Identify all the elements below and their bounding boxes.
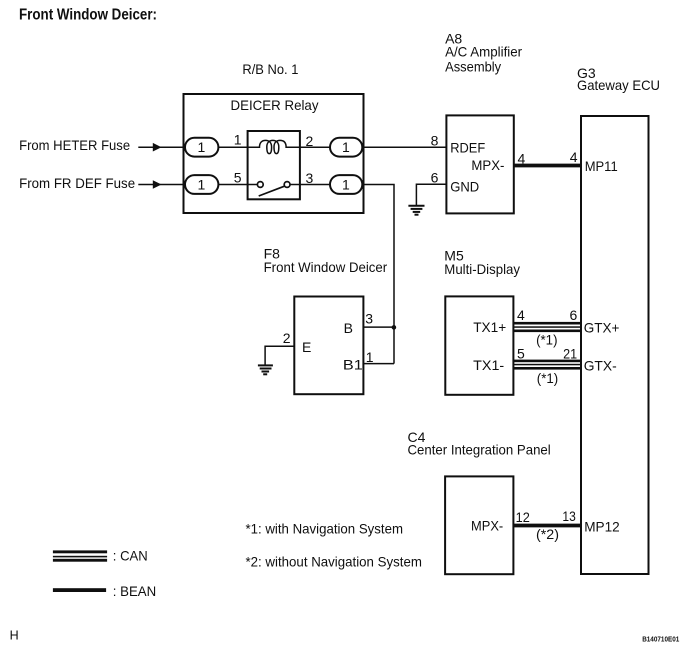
M5 multi-display box [445, 296, 513, 394]
wire relay pin3 to F8 (down) [362, 185, 394, 364]
arrow from HETER fuse [138, 146, 183, 148]
svg-text:GTX+: GTX+ [584, 320, 620, 336]
wire GND to ground [416, 184, 446, 205]
svg-text:Front Window Deicer:: Front Window Deicer: [19, 7, 157, 24]
svg-text:From FR DEF Fuse: From FR DEF Fuse [19, 175, 135, 191]
svg-text:3: 3 [306, 170, 314, 186]
svg-text:Front Window Deicer: Front Window Deicer [264, 259, 388, 275]
wire E to ground [265, 346, 294, 365]
svg-text:B140710E01: B140710E01 [642, 634, 679, 643]
legend BEAN line sample [53, 588, 106, 592]
svg-text:5: 5 [517, 346, 525, 362]
wire coil to oval [300, 146, 330, 148]
svg-text:Assembly: Assembly [445, 59, 501, 75]
arrow from FR DEF fuse [138, 184, 183, 186]
ground symbol (A8 GND) [408, 206, 424, 215]
svg-text:DEICER Relay: DEICER Relay [231, 97, 319, 113]
svg-text:H: H [10, 628, 19, 642]
svg-text:*1: with Navigation System: *1: with Navigation System [246, 521, 404, 537]
svg-text:*2: without Navigation System: *2: without Navigation System [246, 554, 422, 570]
svg-text:6: 6 [431, 170, 439, 186]
CAN bus TX1- to GTX- [513, 360, 581, 370]
svg-text:GTX-: GTX- [584, 358, 617, 374]
svg-text:MPX-: MPX- [471, 157, 504, 173]
svg-text:3: 3 [365, 311, 373, 327]
CAN bus TX1+ to GTX+ [513, 322, 581, 332]
svg-text:4: 4 [518, 150, 526, 166]
connector terminal 1 (FR DEF row, left) [185, 175, 218, 194]
svg-text:12: 12 [516, 509, 530, 525]
svg-text:1: 1 [198, 139, 206, 155]
wire relay to A8 RDEF [362, 146, 446, 148]
svg-text:1: 1 [198, 176, 206, 192]
svg-text:(*1): (*1) [536, 332, 557, 348]
connector terminal 1 (HETER row, left) [185, 138, 218, 157]
svg-text:R/B No. 1: R/B No. 1 [242, 61, 298, 77]
svg-text:(*2): (*2) [536, 526, 559, 542]
svg-text:GND: GND [450, 179, 479, 195]
svg-text:TX1+: TX1+ [473, 319, 506, 335]
connector terminal 1 (HETER row, right) [330, 138, 362, 157]
wire switch to oval [300, 184, 330, 186]
svg-text:A/C Amplifier: A/C Amplifier [445, 44, 522, 60]
svg-text:B: B [344, 320, 353, 336]
BEAN wire C4 MPX- to G3 MP12 [513, 524, 581, 528]
svg-text:: CAN: : CAN [113, 548, 148, 564]
svg-text:Gateway ECU: Gateway ECU [577, 77, 660, 93]
junction node B [392, 325, 397, 330]
svg-text:Multi-Display: Multi-Display [444, 261, 520, 277]
F8 front window deicer box [294, 297, 363, 395]
wire oval to switch [218, 184, 247, 186]
A8 A/C amplifier box [446, 115, 513, 213]
svg-text:1: 1 [342, 176, 350, 192]
wire oval to coil [218, 146, 247, 148]
svg-text:MP11: MP11 [585, 158, 618, 174]
svg-text:5: 5 [234, 169, 242, 185]
svg-text:TX1-: TX1- [473, 357, 504, 373]
svg-text:E: E [302, 339, 311, 355]
svg-text:13: 13 [562, 508, 576, 524]
svg-text:B1: B1 [343, 357, 363, 373]
connector terminal 1 (FR DEF row, right) [330, 175, 362, 194]
svg-text:MPX-: MPX- [471, 518, 504, 534]
svg-text:1: 1 [342, 139, 350, 155]
svg-text:2: 2 [283, 330, 291, 346]
wire F8 B1 to vertical [363, 363, 394, 365]
svg-text:1: 1 [366, 349, 374, 365]
relay block R/B No.1 box [184, 94, 364, 213]
inner relay box [248, 131, 300, 199]
svg-text:RDEF: RDEF [450, 140, 485, 156]
svg-text:8: 8 [431, 133, 439, 149]
svg-text:21: 21 [563, 345, 577, 361]
svg-text:2: 2 [306, 133, 314, 149]
legend CAN line sample [53, 550, 107, 561]
C4 center integration panel box [445, 476, 513, 574]
relay switch [248, 184, 258, 186]
svg-text:1: 1 [234, 131, 242, 147]
svg-text:4: 4 [570, 149, 578, 165]
wire F8 B to junction [363, 326, 394, 328]
relay coil [248, 140, 300, 153]
svg-text:From HETER Fuse: From HETER Fuse [19, 137, 130, 153]
svg-text:MP12: MP12 [584, 519, 620, 535]
ground symbol (F8 E) [258, 365, 273, 374]
svg-text:4: 4 [517, 307, 525, 323]
G3 Gateway ECU box [581, 116, 649, 574]
BEAN wire A8 MPX- to G3 MP11 [514, 164, 581, 168]
svg-text:(*1): (*1) [537, 370, 558, 386]
svg-text:: BEAN: : BEAN [113, 583, 156, 599]
svg-text:6: 6 [570, 307, 578, 323]
svg-text:Center Integration Panel: Center Integration Panel [408, 441, 551, 457]
